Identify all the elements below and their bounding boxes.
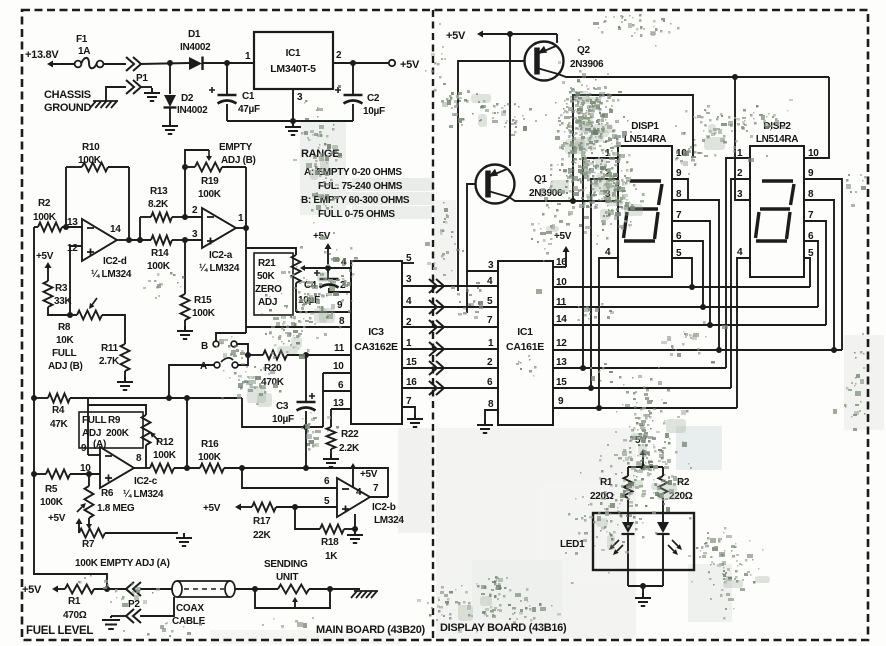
svg-text:Q2: Q2 xyxy=(577,45,590,56)
svg-text:P2: P2 xyxy=(128,599,140,610)
svg-text:SENDING: SENDING xyxy=(264,559,308,570)
resistor R14 100K xyxy=(129,236,188,273)
svg-text:FULL: FULL xyxy=(52,348,77,359)
svg-text:R21: R21 xyxy=(258,258,276,269)
ground xyxy=(117,377,133,390)
svg-text:IC2-c: IC2-c xyxy=(134,476,158,487)
svg-text:9: 9 xyxy=(81,443,87,454)
resistor R1 220 ohm display xyxy=(590,476,633,502)
wire xyxy=(328,267,351,269)
resistor R5 100K xyxy=(34,470,100,509)
wire xyxy=(295,507,320,529)
IC1 pin labels right xyxy=(556,257,567,407)
svg-text:R4: R4 xyxy=(52,405,65,416)
resistor R2 100K xyxy=(33,198,82,232)
svg-text:100K: 100K xyxy=(147,261,171,272)
svg-text:CA161E: CA161E xyxy=(506,341,544,353)
wire xyxy=(300,265,326,271)
wire xyxy=(186,398,188,468)
op-amp IC2-a xyxy=(192,205,244,274)
svg-text:CHASSIS: CHASSIS xyxy=(44,89,91,101)
LED1 box xyxy=(560,513,694,570)
wire xyxy=(242,398,323,427)
svg-text:F1: F1 xyxy=(76,34,88,45)
wire segment row pin14 xyxy=(553,324,826,326)
wire xyxy=(467,270,498,272)
ground xyxy=(323,454,339,467)
svg-text:R2: R2 xyxy=(677,477,690,488)
coax cable xyxy=(172,581,235,627)
wire xyxy=(255,589,330,608)
LED B xyxy=(657,498,683,586)
svg-text:8: 8 xyxy=(808,189,814,200)
wire xyxy=(672,200,719,350)
wire xyxy=(306,354,351,356)
board divider dashed line xyxy=(432,10,434,640)
svg-text:9: 9 xyxy=(558,396,564,407)
wire xyxy=(672,241,703,307)
switch A contact xyxy=(200,358,238,372)
svg-text:100K: 100K xyxy=(33,212,57,223)
svg-text:10: 10 xyxy=(333,361,344,372)
svg-text:R3: R3 xyxy=(55,283,68,294)
wire xyxy=(672,179,688,200)
resistor R10 100K xyxy=(66,142,129,172)
svg-text:10K: 10K xyxy=(56,335,75,346)
wire segment row pin9 xyxy=(553,407,737,409)
svg-text:LM324: LM324 xyxy=(374,515,404,526)
svg-text:+5V: +5V xyxy=(203,503,221,514)
svg-text:100K: 100K xyxy=(198,452,222,463)
wire xyxy=(103,63,126,65)
connector arrows between boards xyxy=(429,279,444,293)
node +5V xyxy=(203,503,252,514)
wire xyxy=(238,355,248,365)
capacitor C3 10uF xyxy=(272,355,316,430)
chassis ground symbol xyxy=(351,591,378,598)
svg-text:LN514RA: LN514RA xyxy=(624,134,666,145)
svg-text:+13.8V: +13.8V xyxy=(25,49,59,61)
node +5V xyxy=(350,463,378,487)
node +5V display board xyxy=(446,30,557,42)
resistor R17 22K xyxy=(252,503,337,542)
wire xyxy=(296,311,351,313)
svg-text:R15: R15 xyxy=(194,295,212,306)
IC3 pin labels left xyxy=(333,257,347,409)
svg-text:13: 13 xyxy=(333,398,344,409)
svg-text:IC1: IC1 xyxy=(286,48,301,59)
wire xyxy=(87,398,89,455)
svg-text:R14: R14 xyxy=(151,248,169,259)
svg-text:200K: 200K xyxy=(106,428,130,439)
potentiometer R9 200K full adj A xyxy=(79,405,159,468)
svg-text:100K: 100K xyxy=(40,497,64,508)
svg-text:R5: R5 xyxy=(45,484,58,495)
svg-text:B: EMPTY 60-300 OHMS: B: EMPTY 60-300 OHMS xyxy=(301,195,410,206)
wire xyxy=(737,258,750,408)
svg-text:100K EMPTY ADJ (A): 100K EMPTY ADJ (A) xyxy=(75,558,170,569)
ground xyxy=(347,530,363,543)
wire xyxy=(558,74,829,77)
svg-text:3: 3 xyxy=(406,274,412,285)
wire xyxy=(573,95,693,201)
wire xyxy=(804,77,829,158)
svg-text:8: 8 xyxy=(339,316,345,327)
wire xyxy=(305,427,307,468)
svg-text:¼ LM324: ¼ LM324 xyxy=(199,263,240,274)
svg-text:R1: R1 xyxy=(68,596,81,607)
svg-text:LM340T-5: LM340T-5 xyxy=(270,63,316,75)
DISP2 pin labels xyxy=(737,148,819,259)
resistor R16 100K xyxy=(198,439,309,473)
svg-text:LN514RA: LN514RA xyxy=(756,134,798,145)
svg-text:R18: R18 xyxy=(321,537,339,548)
svg-text:CA3162E: CA3162E xyxy=(354,341,398,353)
resistor R3 33K xyxy=(44,281,74,318)
svg-text:8: 8 xyxy=(136,453,142,464)
svg-text:5: 5 xyxy=(487,296,493,307)
wire xyxy=(246,326,351,328)
ground xyxy=(477,420,493,433)
svg-text:1.8 MEG: 1.8 MEG xyxy=(97,503,135,514)
svg-text:2: 2 xyxy=(336,50,342,61)
wire xyxy=(322,373,324,427)
wire bus rows IC3 to IC1 xyxy=(402,285,498,287)
svg-text:LED1: LED1 xyxy=(560,539,585,550)
svg-text:2N3906: 2N3906 xyxy=(570,59,604,70)
svg-text:8: 8 xyxy=(676,189,682,200)
wire xyxy=(34,227,107,589)
IC1 pin labels left xyxy=(487,260,494,410)
diode D1 1N4002 xyxy=(180,29,211,70)
wire xyxy=(804,258,810,287)
svg-text:IC2-a: IC2-a xyxy=(209,250,233,261)
ground xyxy=(285,122,301,135)
svg-text:3: 3 xyxy=(488,260,494,271)
range table text xyxy=(301,148,410,220)
svg-text:R11: R11 xyxy=(101,343,119,354)
svg-text:100K: 100K xyxy=(78,155,102,166)
svg-text:GROUND: GROUND xyxy=(44,102,91,114)
wire segment row pin13 xyxy=(553,367,726,369)
chassis ground symbol xyxy=(90,101,118,108)
svg-text:7: 7 xyxy=(676,210,682,221)
connector P1 pin 1 xyxy=(126,57,148,84)
op-amp IC2-c xyxy=(80,443,164,500)
svg-text:¼ LM324: ¼ LM324 xyxy=(91,269,132,280)
wire xyxy=(70,246,82,315)
scan patches xyxy=(300,120,346,215)
svg-text:1A: 1A xyxy=(78,46,90,57)
svg-text:B: B xyxy=(201,341,208,352)
resistor R18 1K xyxy=(320,514,358,562)
svg-text:7: 7 xyxy=(406,396,412,407)
empty adj label xyxy=(219,142,256,166)
wire xyxy=(628,585,663,587)
svg-text:11: 11 xyxy=(334,343,345,354)
wire xyxy=(726,158,750,368)
LED A xyxy=(609,498,635,586)
wire xyxy=(804,241,818,307)
svg-text:6: 6 xyxy=(324,476,330,487)
transistor Q1 2N3906 xyxy=(476,34,563,204)
node +5V xyxy=(48,513,83,533)
wire xyxy=(128,167,130,240)
svg-text:R13: R13 xyxy=(150,186,168,197)
wire xyxy=(117,239,129,241)
node +5V IC1 pin 16 xyxy=(553,231,572,267)
chassis ground label xyxy=(44,89,91,114)
resistor R1 470 xyxy=(63,585,126,622)
diode D2 1N4002 xyxy=(164,63,209,121)
IC3 pin 7 ground xyxy=(402,407,415,414)
wire xyxy=(591,179,618,388)
svg-text:4: 4 xyxy=(605,247,611,258)
op-amp IC1 CA161E box xyxy=(498,261,553,425)
svg-text:1K: 1K xyxy=(325,551,338,562)
op-amp IC3 CA3162E box xyxy=(351,261,402,424)
svg-text:8.2K: 8.2K xyxy=(148,199,169,210)
capacitor C1 47uF xyxy=(209,63,260,121)
resistor R15 100K xyxy=(181,240,216,326)
svg-text:16: 16 xyxy=(406,377,417,388)
svg-text:1: 1 xyxy=(245,51,251,62)
svg-text:10µF: 10µF xyxy=(363,106,385,117)
svg-text:6: 6 xyxy=(487,377,493,388)
svg-text:R12: R12 xyxy=(156,437,174,448)
regulator IC1 LM340T-5 xyxy=(245,32,342,103)
svg-text:IN4002: IN4002 xyxy=(180,42,211,53)
svg-text:14: 14 xyxy=(110,224,121,235)
wire segment row pin10 xyxy=(553,286,810,288)
op-amp IC2-d xyxy=(67,217,132,280)
svg-text:R17: R17 xyxy=(253,516,271,527)
svg-text:R6: R6 xyxy=(101,488,114,499)
wire xyxy=(731,179,750,388)
wire xyxy=(804,179,842,350)
svg-text:ADJ: ADJ xyxy=(258,297,277,308)
wire xyxy=(242,468,337,488)
wire xyxy=(65,167,67,227)
svg-text:+5V: +5V xyxy=(554,231,572,242)
wire xyxy=(306,468,388,497)
svg-text:47K: 47K xyxy=(50,419,69,430)
wire xyxy=(203,62,254,64)
display DISP2 LN514RA box xyxy=(750,121,804,277)
svg-text:+5V: +5V xyxy=(48,513,66,524)
svg-text:33K: 33K xyxy=(54,296,73,307)
wire xyxy=(237,344,248,355)
svg-text:8: 8 xyxy=(488,399,494,410)
node 5V LED supply xyxy=(635,435,647,470)
IC3 pin labels right xyxy=(406,253,417,407)
IC1 pin 8 ground xyxy=(485,410,498,420)
svg-text:ADJ (B): ADJ (B) xyxy=(48,361,83,372)
resistor R12 100K xyxy=(134,437,200,473)
svg-text:10µF: 10µF xyxy=(272,414,294,425)
wire xyxy=(245,167,247,333)
wire xyxy=(169,365,214,398)
svg-text:100K: 100K xyxy=(192,308,216,319)
ground xyxy=(144,88,160,101)
svg-text:R22: R22 xyxy=(341,429,359,440)
node +5V output terminal xyxy=(333,59,420,71)
resistor R20 470K xyxy=(248,351,309,389)
transistor Q2 2N3906 xyxy=(525,34,604,81)
wire xyxy=(735,77,750,200)
potentiometer R21 50K zero adj xyxy=(246,248,301,315)
svg-text:47µF: 47µF xyxy=(238,104,260,115)
svg-text:IN4002: IN4002 xyxy=(177,105,208,116)
wire xyxy=(804,200,834,350)
svg-text:15: 15 xyxy=(406,357,417,368)
svg-text:EMPTY: EMPTY xyxy=(219,142,253,153)
ground xyxy=(177,326,193,339)
wire xyxy=(227,120,353,122)
svg-text:13: 13 xyxy=(556,357,567,368)
svg-text:R2: R2 xyxy=(38,198,51,209)
svg-text:2: 2 xyxy=(192,205,198,216)
svg-text:+5V: +5V xyxy=(400,59,420,71)
wire xyxy=(804,221,826,325)
svg-text:100K: 100K xyxy=(153,450,177,461)
connector P1 pin 2 xyxy=(106,80,152,101)
capacitor C2 10uF xyxy=(335,60,385,121)
svg-text:IC3: IC3 xyxy=(368,326,384,338)
capacitor C4 10uF xyxy=(298,268,351,306)
wire xyxy=(331,408,351,410)
svg-text:COAX: COAX xyxy=(176,603,204,614)
DISP2 seven segment digit xyxy=(756,181,795,241)
wire xyxy=(216,333,246,341)
svg-text:1: 1 xyxy=(238,213,244,224)
node +5V xyxy=(22,584,65,596)
svg-text:C2: C2 xyxy=(367,93,380,104)
potentiometer R6 1.8 MEG xyxy=(77,474,135,518)
svg-text:7: 7 xyxy=(487,315,493,326)
svg-text:R7: R7 xyxy=(82,539,95,550)
potentiometer R19 100K empty adj xyxy=(182,150,246,200)
wire xyxy=(672,221,710,325)
potentiometer sending unit xyxy=(264,559,360,594)
svg-text:ZERO: ZERO xyxy=(255,284,282,295)
svg-text:C1: C1 xyxy=(242,91,255,102)
op-amp IC2-b xyxy=(324,476,404,526)
node +13.8V input terminal xyxy=(25,49,74,68)
svg-text:12: 12 xyxy=(67,243,78,254)
ground xyxy=(635,593,651,606)
ground xyxy=(407,414,423,427)
switch B contact xyxy=(201,341,237,352)
wire xyxy=(292,89,294,121)
svg-text:+5V: +5V xyxy=(22,584,42,596)
svg-text:4: 4 xyxy=(737,247,743,258)
svg-text:2: 2 xyxy=(737,168,743,179)
ground xyxy=(102,616,120,629)
svg-text:UNIT: UNIT xyxy=(276,572,298,583)
wire xyxy=(140,63,189,64)
ground xyxy=(176,533,192,546)
svg-text:R10: R10 xyxy=(82,142,100,153)
svg-text:R9: R9 xyxy=(108,415,121,426)
connector P2 pin 2 xyxy=(111,597,174,623)
node +5V xyxy=(36,251,54,281)
svg-text:FULL 0-75 OHMS: FULL 0-75 OHMS xyxy=(318,209,395,220)
svg-text:+5V: +5V xyxy=(446,30,466,42)
wire xyxy=(88,397,242,399)
connector P2 pin 1 xyxy=(126,582,172,610)
svg-text:4: 4 xyxy=(487,276,493,287)
svg-text:¼ LM324: ¼ LM324 xyxy=(123,489,164,500)
svg-text:D2: D2 xyxy=(181,93,194,104)
svg-text:4: 4 xyxy=(406,296,412,307)
svg-text:C3: C3 xyxy=(276,401,289,412)
DISP1 seven segment digit xyxy=(624,181,663,241)
svg-text:2.2K: 2.2K xyxy=(339,443,360,454)
svg-text:ADJ: ADJ xyxy=(82,428,101,439)
svg-text:7: 7 xyxy=(808,210,814,221)
svg-text:1: 1 xyxy=(406,338,412,349)
wire xyxy=(139,217,141,240)
wire xyxy=(458,61,525,291)
svg-text:+5V: +5V xyxy=(36,251,54,262)
resistor R4 47K xyxy=(34,394,88,431)
svg-text:FULL: FULL xyxy=(82,415,107,426)
svg-text:P1: P1 xyxy=(136,73,148,84)
wire xyxy=(599,258,618,408)
svg-text:100K: 100K xyxy=(198,189,222,200)
svg-text:R8: R8 xyxy=(58,322,71,333)
resistor R11 2.7K xyxy=(99,343,130,377)
svg-text:3: 3 xyxy=(192,229,198,240)
fuse F1 1A xyxy=(75,34,104,68)
svg-text:ADJ (B): ADJ (B) xyxy=(221,155,256,166)
svg-text:5: 5 xyxy=(324,496,330,507)
svg-text:IC2-b: IC2-b xyxy=(372,502,396,513)
wire segment row pin15 xyxy=(553,387,731,389)
svg-text:3: 3 xyxy=(297,92,303,103)
wire segment row pin11 xyxy=(553,306,818,308)
svg-text:+5V: +5V xyxy=(360,469,378,480)
svg-text:14: 14 xyxy=(556,314,567,325)
wire xyxy=(509,197,618,201)
svg-text:6: 6 xyxy=(338,380,344,391)
svg-text:MAIN BOARD (43B20): MAIN BOARD (43B20) xyxy=(316,624,426,636)
ground xyxy=(162,121,178,134)
svg-text:3: 3 xyxy=(737,189,743,200)
svg-text:A: A xyxy=(200,361,207,372)
wire xyxy=(583,158,618,368)
DISP1 pin labels xyxy=(605,148,687,259)
wire xyxy=(184,167,186,217)
svg-text:R16: R16 xyxy=(201,439,219,450)
IC3 pin 5 stub xyxy=(402,262,414,264)
potentiometer R7 100K empty adj A xyxy=(79,518,178,550)
svg-text:15: 15 xyxy=(556,377,567,388)
svg-text:IC2-d: IC2-d xyxy=(103,256,127,267)
resistor R22 2.2K xyxy=(327,427,361,454)
svg-text:D1: D1 xyxy=(188,29,201,40)
svg-text:12: 12 xyxy=(556,338,567,349)
resistor R13 8.2K xyxy=(140,186,188,222)
svg-text:50K: 50K xyxy=(257,271,276,282)
svg-text:9: 9 xyxy=(808,168,814,179)
svg-text:470Ω: 470Ω xyxy=(63,610,87,621)
svg-text:22K: 22K xyxy=(253,530,272,541)
svg-text:DISP1: DISP1 xyxy=(631,121,659,132)
potentiometer R8 10K full adj B xyxy=(48,298,102,372)
wire segment row pin12 xyxy=(553,349,842,351)
